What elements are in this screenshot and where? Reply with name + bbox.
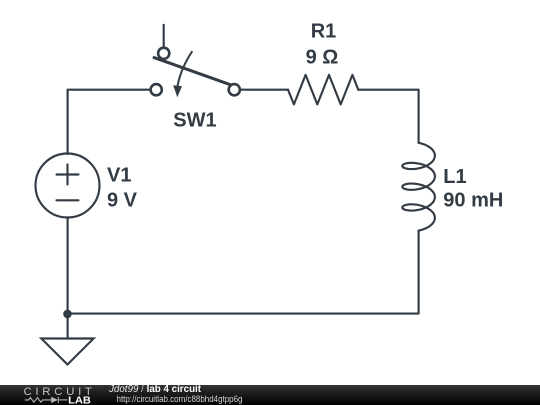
inductor L1 xyxy=(402,143,435,231)
SW1 actuation arrow xyxy=(178,51,193,86)
wire xyxy=(241,89,288,91)
wire xyxy=(67,218,69,339)
SW1 lever xyxy=(154,58,230,85)
wire xyxy=(68,90,150,154)
svg-text:R1: R1 xyxy=(311,20,337,42)
SW1 top terminal xyxy=(158,48,169,59)
junction dot xyxy=(63,310,72,319)
svg-text:9 V: 9 V xyxy=(107,189,138,211)
wire xyxy=(163,25,165,47)
svg-text:http://circuitlab.com/c88bhd4g: http://circuitlab.com/c88bhd4gtpp6g xyxy=(117,394,243,404)
svg-text:SW1: SW1 xyxy=(173,110,216,132)
V1 plus sign xyxy=(57,165,79,185)
svg-text:L1: L1 xyxy=(443,166,466,188)
wire xyxy=(68,231,419,314)
resistor R1 xyxy=(288,75,358,105)
svg-text:9 Ω: 9 Ω xyxy=(306,46,339,68)
footer bar xyxy=(0,385,540,405)
logo diode xyxy=(51,397,58,403)
switch SW1 xyxy=(151,48,240,98)
svg-text:LAB: LAB xyxy=(68,395,91,405)
SW1 right terminal xyxy=(229,84,240,95)
ground xyxy=(41,339,93,365)
wire xyxy=(358,90,418,143)
SW1 arrowhead xyxy=(173,85,182,97)
svg-text:90 mH: 90 mH xyxy=(443,189,503,211)
SW1 left terminal xyxy=(151,84,162,95)
voltage source V1 xyxy=(36,154,100,218)
V1 minus sign xyxy=(57,199,79,201)
logo squiggle xyxy=(25,397,68,403)
svg-text:V1: V1 xyxy=(107,165,131,187)
